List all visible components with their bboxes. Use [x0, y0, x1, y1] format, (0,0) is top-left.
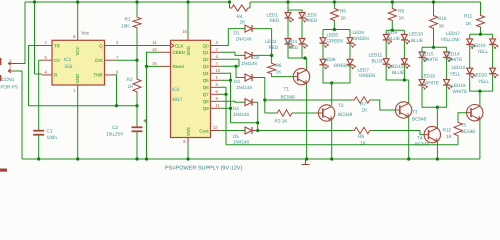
junction rail / red group	[286, 0, 289, 3]
wire green column B down	[332, 66, 350, 83]
svg-text:1K: 1K	[276, 70, 283, 76]
LED LED16 WHITE	[421, 78, 423, 87]
wire D2 cathode to T1 base bus	[255, 54, 272, 56]
transistor T2 BC548	[318, 105, 334, 121]
svg-text:R3 1K: R3 1K	[275, 118, 289, 124]
LED LED9 BLUE	[385, 33, 387, 42]
svg-text:GREEN: GREEN	[359, 73, 375, 78]
wire D5 cathode run to R8	[255, 130, 352, 132]
junction R11 / group 4b	[479, 33, 482, 36]
junction T2 emitter / GND rail	[330, 157, 333, 160]
pin stub GND pin1	[77, 85, 79, 91]
pin stub CV pin5	[42, 59, 52, 61]
svg-text:VCC: VCC	[75, 45, 80, 55]
svg-text:T3: T3	[412, 110, 418, 116]
junction VSS / GND rail	[186, 157, 189, 160]
svg-text:LED10: LED10	[409, 32, 423, 37]
junction C1/GND rail	[37, 157, 40, 160]
svg-text:R10: R10	[438, 16, 447, 22]
wire R1 to DIS node	[136, 29, 138, 60]
wire group 4a merge	[422, 86, 437, 107]
wire Q2 down to Q3	[221, 59, 240, 66]
wire rail to R4	[229, 2, 231, 8]
LED LED12 BLUE	[403, 57, 405, 66]
wire to 555 CV pin	[39, 59, 42, 61]
svg-text:1N4148: 1N4148	[241, 61, 257, 66]
wire blue group top join	[386, 29, 404, 31]
svg-text:C2: C2	[112, 125, 118, 131]
wire down to LED5	[322, 30, 324, 38]
resistor R3 1K	[275, 110, 294, 116]
junction 4b merge / T5 collector	[478, 90, 481, 93]
svg-text:Q: Q	[99, 43, 103, 48]
LED LED18 YELLOW	[446, 78, 448, 87]
svg-text:VSS: VSS	[186, 127, 191, 136]
wire LED14 to LED18	[446, 59, 448, 80]
wire rail to R9	[391, 2, 393, 7]
svg-text:1N4148: 1N4148	[233, 112, 249, 117]
junction Q4/Q5	[229, 79, 232, 82]
junction R9 / blue group	[391, 29, 394, 32]
wire green columns merge	[323, 66, 332, 83]
pin stub Q4 pin10	[211, 72, 221, 74]
wire group 4b top join	[470, 33, 493, 35]
pin stub VDD pin16	[187, 35, 189, 41]
LED LED2 RED	[287, 37, 289, 46]
wire to D4/D5 cathode bus	[231, 122, 258, 124]
wire down to 4b LED B	[492, 34, 494, 39]
wire D3 node to R3	[265, 112, 276, 114]
LED LED15 WHITE	[421, 51, 423, 60]
svg-text:LED16: LED16	[421, 73, 435, 78]
svg-text:Q0: Q0	[203, 43, 209, 48]
svg-text:Q4: Q4	[203, 71, 209, 76]
wire Q0 to D1	[221, 29, 239, 46]
wire 555 GND pin1 to GND rail	[77, 91, 79, 159]
svg-text:10u,25V: 10u,25V	[106, 132, 124, 138]
wire Cout to D5	[221, 130, 239, 132]
junction R5 / green group	[333, 28, 336, 31]
wire T5 emitter to GND rail	[479, 119, 481, 159]
junction THR / timing node	[115, 104, 118, 107]
svg-text:Q7: Q7	[203, 92, 209, 97]
svg-text:Q1: Q1	[203, 50, 209, 55]
svg-text:VDD: VDD	[186, 45, 191, 55]
wire T2 emitter to GND rail	[331, 120, 333, 159]
svg-text:10K: 10K	[121, 23, 130, 29]
wire LED5 to LED6	[322, 44, 324, 59]
svg-text:LED7: LED7	[358, 67, 370, 72]
wire T1 emitter to GND rail	[306, 83, 308, 159]
resistor R9 1K	[388, 7, 396, 22]
pin stub DIS pin7	[105, 59, 115, 61]
svg-text:LED14: LED14	[446, 51, 460, 56]
clock wedge on CLK pin	[171, 43, 175, 48]
wire Vcc top rail left section	[25, 1, 230, 3]
svg-text:FOR PS: FOR PS	[1, 85, 18, 91]
wire DIS pin7 to R1/R2 node	[115, 59, 138, 61]
svg-text:RED: RED	[289, 45, 299, 50]
svg-text:R2: R2	[127, 77, 133, 83]
wire R4 back to rail	[249, 2, 251, 8]
junction Vcc rail / 4017 supply	[186, 0, 189, 3]
wire CKEN to reset net	[147, 52, 161, 66]
wire R2 to timing node	[136, 94, 138, 106]
wire blue column B down	[403, 65, 405, 80]
LED LED7 GREEN	[349, 58, 351, 67]
svg-text:Cout: Cout	[199, 128, 209, 133]
svg-text:GND: GND	[75, 73, 80, 84]
svg-text:1K: 1K	[466, 21, 473, 27]
wire Q6 down to R12 run	[221, 87, 227, 145]
wire R3 to T2 base	[294, 112, 318, 114]
svg-text:YELL: YELL	[478, 79, 490, 84]
pin stub Q1 pin2	[211, 51, 221, 53]
wire R9 to blue group top	[391, 22, 393, 30]
resistor R1 10K	[133, 16, 141, 29]
wire T4 emitter to GND rail	[436, 141, 438, 159]
wire rail end down to R11	[480, 2, 482, 14]
svg-text:LED17: LED17	[446, 31, 460, 36]
svg-text:BC548: BC548	[338, 112, 353, 118]
wire Q4 down to Q5	[221, 73, 231, 80]
svg-text:IC1: IC1	[64, 57, 72, 63]
svg-text:CKEN: CKEN	[173, 50, 185, 55]
svg-text:WHITE: WHITE	[424, 81, 439, 86]
wire Vcc branch down to 555 reset	[34, 2, 36, 74]
svg-text:YELLOW: YELLOW	[441, 37, 461, 42]
wire red column B down	[301, 45, 303, 58]
LED LED14 WHITE	[446, 51, 448, 60]
svg-text:R9: R9	[398, 8, 404, 14]
svg-text:1K: 1K	[360, 140, 367, 146]
svg-text:D3: D3	[234, 79, 240, 84]
svg-text:R12: R12	[443, 128, 452, 134]
wire red column A to T1 collector	[288, 45, 307, 58]
wire down to LED15	[421, 47, 423, 52]
junction Vcc rail / 555 supply	[76, 0, 79, 3]
LED 4b lower A YELLOW	[469, 67, 471, 76]
svg-text:D1: D1	[234, 31, 240, 36]
resistor R6 1K	[268, 62, 276, 75]
wire 555 Q to 4017 CLK	[115, 45, 161, 47]
wire LED1 to LED2	[287, 19, 289, 39]
svg-text:THR: THR	[94, 73, 104, 78]
wire D4 cathode down to Cout net	[255, 102, 258, 130]
resistor R10 1K	[430, 14, 438, 30]
junction blue merge	[403, 78, 406, 81]
wire to T5 collector	[479, 91, 481, 106]
svg-text:RED: RED	[308, 18, 318, 23]
junction red columns merge	[303, 56, 306, 59]
wire LED3 to LED4	[301, 19, 303, 39]
svg-text:CLK: CLK	[175, 43, 184, 48]
junction C2 / GND rail	[135, 157, 138, 160]
LED LED1 RED	[287, 11, 289, 20]
wire green group top join	[323, 29, 350, 31]
svg-text:1K: 1K	[341, 16, 348, 22]
svg-text:100n: 100n	[47, 135, 58, 141]
svg-text:BC548: BC548	[461, 129, 476, 135]
junction R7 branch	[263, 98, 266, 101]
wire Q6/Q7 run to R12	[226, 144, 458, 146]
wire LED9 to LED11	[385, 41, 387, 59]
LED LED20 YELLOW upper	[492, 37, 494, 46]
wire GND bottom rail	[22, 158, 480, 160]
wire DIS node to R2	[136, 60, 138, 77]
wire R12 to T5 base	[458, 113, 467, 121]
wire group 4b merge	[470, 75, 480, 91]
junction DIS / R1 / R2	[135, 59, 138, 62]
svg-text:1K: 1K	[362, 108, 369, 114]
left edge artifact 1	[0, 58, 1, 65]
transistor T1 BC548	[293, 68, 309, 84]
counter IC2 4017 body	[171, 40, 211, 137]
wire Vcc rail to 555 pin8	[77, 2, 79, 35]
svg-text:12: 12	[213, 125, 218, 130]
LED LED13 YELLOW	[469, 37, 471, 46]
pin stub TR pin2	[42, 45, 52, 47]
junction D4/D5 cathodes on T4 run	[256, 129, 259, 132]
svg-text:T2: T2	[338, 103, 344, 109]
wire Q9	[221, 107, 231, 109]
wire LED10 to LED12	[403, 41, 405, 59]
svg-text:BC548: BC548	[281, 94, 296, 100]
svg-text:1K: 1K	[240, 19, 247, 25]
wire C2 to GND rail	[136, 131, 138, 159]
wire D1 cathode to T1 base bus	[255, 29, 272, 62]
svg-text:LED5: LED5	[327, 33, 339, 38]
LED LED11 BLUE	[385, 57, 387, 66]
pin stub Q9 pin11	[211, 107, 221, 109]
svg-text:RED: RED	[269, 45, 279, 50]
wire Vcc rail to R1	[136, 2, 138, 16]
junction T4 emitter / GND rail	[436, 157, 439, 160]
wire 4b column B middle	[492, 45, 494, 68]
wire LED15 to LED16	[421, 59, 423, 80]
wire to T4 collector	[436, 107, 438, 128]
svg-text:WHITE: WHITE	[424, 57, 439, 62]
svg-text:YELL: YELL	[450, 71, 462, 76]
svg-text:LED11: LED11	[369, 53, 383, 58]
wire R7 to T3 base	[372, 100, 396, 110]
svg-text:BLUE: BLUE	[392, 70, 404, 75]
pin stub Q7 pin6	[211, 93, 221, 95]
wire rail to red LED column A	[287, 2, 289, 13]
wire TR pin2 to timing node	[29, 46, 43, 106]
wire down to LED14	[446, 47, 448, 52]
svg-text:Q8: Q8	[203, 99, 209, 104]
wire group 4a top join	[422, 46, 447, 48]
wire reset net to GND rail	[146, 66, 148, 159]
wire Q2/Q3 to D3	[236, 66, 238, 77]
wire R10 down to group 4a top	[433, 30, 435, 47]
junction R2 / C2 / timing node	[135, 104, 138, 107]
svg-text:R11: R11	[464, 13, 473, 19]
pin stub Q0 pin3	[211, 45, 221, 47]
svg-text:PS=POWER SUPPLY (9V-12V): PS=POWER SUPPLY (9V-12V)	[165, 166, 242, 172]
svg-text:Q6: Q6	[203, 85, 209, 90]
svg-text:1N4148: 1N4148	[233, 140, 249, 145]
wire CON1 pin1 to Vcc rail	[14, 2, 25, 64]
svg-text:Vcc: Vcc	[81, 30, 89, 36]
junction group 4a merge / T4 collector	[436, 106, 439, 109]
svg-text:Reset: Reset	[173, 64, 185, 69]
wire Q5	[221, 79, 231, 81]
transistor T3 BC548	[395, 102, 411, 118]
svg-text:GREEN: GREEN	[353, 36, 369, 41]
wire Q7	[221, 93, 227, 95]
junction T1 emitter / GND rail	[305, 157, 308, 160]
wire C1 to GND rail	[38, 135, 40, 159]
junction Q-net / D4 bus	[256, 121, 259, 124]
wire to T2 collector	[331, 83, 333, 106]
op-amp timer IC1 555 body	[52, 40, 105, 85]
left edge artifact 2	[0, 75, 1, 81]
junction Vcc rail / R1	[135, 0, 138, 3]
svg-text:R4: R4	[237, 14, 243, 20]
connector CON1 pin 1	[8, 62, 14, 66]
resistor R2 1K	[133, 78, 141, 94]
wire 4b column B down	[480, 75, 493, 91]
pin stub CLK pin14	[161, 45, 171, 47]
svg-text:D5: D5	[233, 134, 239, 139]
LED LED4 RED	[301, 37, 303, 46]
wire Vcc top rail right section	[250, 1, 481, 3]
junction rail / R4	[228, 0, 231, 3]
svg-text:WHITE: WHITE	[448, 57, 463, 62]
svg-text:10: 10	[216, 68, 221, 73]
connector CON1 pin 2	[8, 69, 14, 73]
junction 555 GND / rail	[76, 157, 79, 160]
svg-text:15: 15	[152, 61, 157, 66]
wire group 4a column B down	[437, 86, 446, 107]
resistor R7 1K	[352, 97, 371, 103]
svg-text:Q9: Q9	[203, 106, 209, 111]
wire 4b column A middle	[469, 45, 471, 68]
wire Q1 to D2	[221, 52, 239, 55]
LED LED3 RED	[301, 11, 303, 20]
wire to T1 collector	[306, 58, 308, 70]
wire Q8 to D4	[221, 100, 239, 103]
resistor R5 1K	[330, 7, 338, 22]
svg-text:R1: R1	[125, 16, 131, 22]
junction Q9 joins Q4/Q5 net	[229, 107, 232, 110]
transistor T5 BC548	[467, 105, 483, 121]
svg-text:1K: 1K	[399, 16, 406, 22]
svg-text:LED19: LED19	[472, 43, 486, 48]
pin stub VSS pin8	[187, 138, 189, 144]
LED LED6 GREEN	[322, 58, 324, 67]
wire down to 4b LED A	[469, 34, 471, 39]
diode D2 1N4148	[238, 54, 245, 56]
wire CON1 pin2 to GND rail	[14, 71, 22, 159]
svg-text:BLUE: BLUE	[388, 36, 400, 41]
wire down to LED8	[349, 30, 351, 38]
svg-text:1N4148: 1N4148	[236, 85, 252, 90]
svg-text:Q2: Q2	[203, 57, 209, 62]
svg-text:BLUE: BLUE	[372, 58, 384, 63]
wire Reset pin15	[147, 65, 161, 67]
svg-text:LED4: LED4	[286, 39, 298, 44]
wire Vcc rail to 4017 VDD	[187, 2, 189, 35]
diode D1 1N4148	[238, 28, 245, 30]
LED LED8 GREEN	[349, 36, 351, 45]
pin stub Q5 pin1	[211, 79, 221, 81]
LED 4b lower B YELLOW	[492, 67, 494, 76]
diode D5 1N4148	[238, 130, 245, 132]
wire red group top join	[288, 10, 302, 13]
junction rail / R5	[333, 0, 336, 3]
wire down to LED10	[403, 30, 405, 34]
svg-text:BLUE: BLUE	[411, 38, 423, 43]
svg-text:GREEN: GREEN	[327, 39, 343, 44]
svg-text:LED20: LED20	[473, 73, 487, 78]
svg-text:Q5: Q5	[203, 78, 209, 83]
diode D4 1N4148	[238, 101, 245, 103]
ground symbol	[302, 159, 310, 165]
resistor R12 1K	[454, 121, 462, 138]
svg-text:RED: RED	[270, 18, 280, 23]
pin stub THR pin6	[105, 74, 115, 76]
svg-text:13: 13	[152, 47, 157, 52]
svg-text:D4: D4	[233, 106, 239, 111]
wire R7 run from D3 node	[265, 99, 353, 101]
junction D1/D2 cathodes	[270, 54, 273, 57]
capacitor C2 10u 25V	[132, 126, 143, 128]
pin stub R pin4	[42, 74, 52, 76]
svg-text:R8: R8	[358, 134, 364, 140]
junction R10 / group 4a	[432, 46, 435, 49]
svg-text:R5: R5	[340, 8, 346, 14]
svg-text:R6: R6	[276, 63, 282, 69]
svg-text:DIS: DIS	[95, 58, 102, 63]
svg-text:IC2: IC2	[172, 87, 180, 93]
svg-text:CON1: CON1	[2, 77, 15, 83]
wire up to R12	[457, 137, 459, 144]
pin stub Q pin3	[105, 45, 115, 47]
wire R6 to T1 base	[272, 75, 294, 77]
svg-text:T1: T1	[284, 87, 290, 93]
pin stub Reset pin15	[161, 65, 171, 67]
junction rail / R9	[391, 0, 394, 3]
svg-text:WHITE: WHITE	[453, 89, 468, 94]
junction Vcc rail / reset branch	[33, 0, 36, 3]
svg-text:R7: R7	[360, 101, 366, 107]
svg-text:1K: 1K	[128, 84, 135, 90]
svg-text:LED15: LED15	[420, 51, 434, 56]
svg-text:LED19: LED19	[452, 83, 466, 88]
pin stub CKEN pin13	[161, 51, 171, 53]
wire R11 to group 4b top	[480, 29, 482, 35]
wire timing node horizontal	[29, 105, 138, 107]
junction Q2/Q3	[234, 65, 237, 68]
wire THR pin6 down to timing node	[115, 75, 117, 106]
junction T3 emitter / GND rail	[407, 157, 410, 160]
svg-text:16: 16	[182, 29, 187, 34]
svg-text:LED9: LED9	[386, 30, 398, 35]
wire timing node to C2	[136, 106, 138, 128]
junction green merge / T2 collector	[330, 81, 333, 84]
svg-text:1N4148: 1N4148	[236, 36, 252, 41]
svg-text:LED8: LED8	[353, 30, 365, 35]
svg-text:4017: 4017	[172, 97, 183, 103]
svg-text:14: 14	[152, 40, 157, 45]
wire R8 to T4 base	[372, 131, 424, 135]
LED LED10 BLUE	[403, 33, 405, 42]
wire R5 to green group top	[333, 22, 335, 30]
LED LED5 GREEN	[322, 36, 324, 45]
